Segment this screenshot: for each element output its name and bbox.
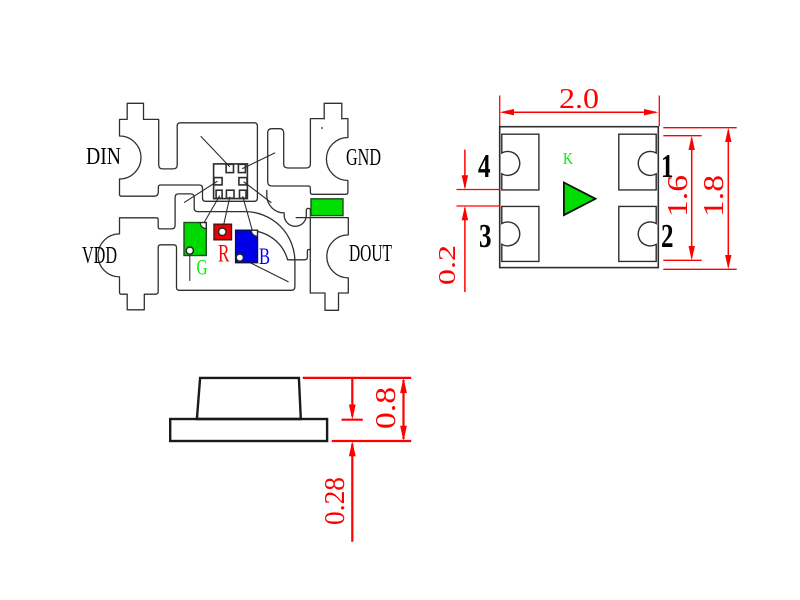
svg-text:4: 4 [478, 148, 491, 185]
svg-text:GND: GND [346, 145, 381, 171]
IC pad top-left [226, 164, 233, 172]
wire IC to red die [222, 197, 230, 231]
pad 2 (bottom-right) with notch [619, 206, 656, 261]
svg-text:2.0: 2.0 [559, 83, 599, 115]
IC pad bottom-mid [226, 190, 234, 198]
IC U1 body [214, 164, 248, 199]
green polarity mark on GND [311, 199, 343, 216]
0.28 upper arrow [351, 378, 353, 416]
package outline square [500, 127, 659, 268]
pad 3 (bottom-left) with notch [502, 206, 539, 261]
dimension 1.6 [663, 136, 701, 261]
LED base slab [170, 419, 327, 441]
0.28 lower arrow [351, 444, 353, 542]
small quarter arc and bowl channel below GND [267, 190, 311, 226]
IC pad top-right [238, 164, 245, 172]
pad DOUT outline with tab and castellation arc [310, 218, 348, 311]
wire GND to IC pad2 [243, 153, 275, 169]
svg-text:0.28: 0.28 [320, 477, 351, 525]
cathode triangle [564, 183, 596, 216]
svg-text:K: K [563, 149, 574, 168]
dimension 0.8 [303, 378, 411, 542]
pad 4 (top-left) with notch [502, 134, 539, 190]
svg-text:G: G [197, 255, 208, 280]
svg-text:DOUT: DOUT [349, 241, 392, 267]
dimension 0.2 [457, 150, 501, 292]
pad VDD outline with tab, castellation arc, neck channel, corridor and die cavity ring [98, 194, 295, 310]
pad DIN outline with tab, castellation arc, neck and IC cavity ring [120, 103, 258, 201]
IC pad mid-left [214, 178, 222, 185]
svg-text:DIN: DIN [86, 144, 121, 170]
dimension 2.0 [500, 96, 660, 127]
svg-text:1.8: 1.8 [698, 175, 730, 217]
LED body trapezoid [197, 378, 301, 419]
IC pad bottom-right [240, 190, 247, 198]
svg-text:2: 2 [661, 218, 674, 255]
blue die B [236, 230, 258, 263]
svg-text:R: R [218, 241, 230, 268]
svg-text:3: 3 [479, 218, 492, 255]
green die G [184, 223, 206, 256]
IC pad bottom-left [216, 190, 222, 198]
pad GND outline with tab, castellation arc and gap channel to cavity [268, 103, 348, 194]
svg-text:1.6: 1.6 [662, 175, 694, 217]
speck dot [321, 127, 323, 129]
0.8 dim line [402, 380, 404, 439]
wire IC to blue die [243, 197, 253, 234]
svg-text:B: B [259, 244, 270, 269]
wire DOUT to IC right pad [244, 182, 271, 203]
DOUT top edge extension under green mark [296, 217, 310, 219]
wire DIN to IC pad1 [201, 137, 230, 167]
wire VDD to IC left pad [185, 182, 218, 203]
svg-text:VDD: VDD [82, 243, 117, 269]
wire blue die to paddle [241, 258, 289, 282]
svg-text:0.8: 0.8 [371, 387, 402, 429]
inner arc of DOUT curved trace (emerges from behind blue die) [242, 231, 311, 260]
red die R [214, 224, 232, 240]
dimension 1.8 [663, 128, 736, 270]
pad 1 (top-right) with notch [619, 134, 656, 190]
IC pad mid-right [239, 178, 247, 185]
svg-text:0.2: 0.2 [435, 245, 461, 285]
bond wires [185, 137, 289, 282]
wire IC to green die [202, 196, 220, 227]
wire green die to VDD paddle [189, 251, 191, 281]
